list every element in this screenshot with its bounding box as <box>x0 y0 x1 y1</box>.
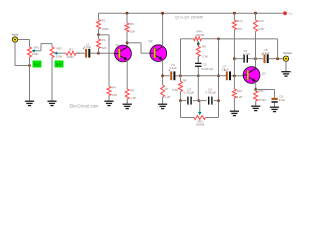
label R7 value 1.2K <box>164 95 170 99</box>
svg-text:VR2: VR2 <box>56 47 62 51</box>
wire C7 to Q3 base <box>231 75 244 77</box>
ground VR1 <box>25 98 34 106</box>
wire Q2 emitter to C2 <box>163 75 170 77</box>
resistor R13 5.6K <box>254 13 258 67</box>
potentiometer VR2 100K <box>50 47 54 101</box>
VR1 wiper arrow <box>32 49 38 52</box>
label R10 value 8.2K <box>236 95 242 99</box>
label R2 <box>102 18 106 22</box>
wire C2 to node B <box>175 75 180 77</box>
label R11 <box>258 89 264 93</box>
wire Q1 collector to Q2 base <box>127 43 150 53</box>
wire node A to R4 column <box>99 35 110 87</box>
svg-text:5.6K: 5.6K <box>258 27 264 31</box>
node bus right junction <box>217 99 220 102</box>
svg-text:82K: 82K <box>102 46 107 50</box>
label VR4 value 100KB <box>195 33 204 37</box>
svg-text:3.3µF: 3.3µF <box>169 66 177 70</box>
wire C6 left <box>234 58 243 60</box>
svg-text:3.3µF: 3.3µF <box>84 45 92 49</box>
svg-text:C5: C5 <box>203 62 207 66</box>
svg-text:4.7µF: 4.7µF <box>243 52 251 56</box>
label R7 <box>165 87 169 91</box>
node R12 C6 junction <box>233 57 236 60</box>
ground output <box>281 69 290 77</box>
node Q3 emitter junction <box>254 88 257 91</box>
watermark ElecCircuit.com <box>69 104 99 109</box>
ground VR2 <box>47 98 56 106</box>
svg-text:1.2K: 1.2K <box>164 95 170 99</box>
label R1 value <box>66 55 74 59</box>
input connector J1 <box>12 33 19 43</box>
wire C5 to base wire <box>197 67 199 76</box>
wire Q1 emitter down <box>126 60 128 89</box>
resistor R7 1.2K <box>161 85 165 101</box>
VR4 wiper arrow <box>197 41 200 47</box>
transistor Q1 2SC945 <box>115 43 132 62</box>
svg-text:Q2: Q2 <box>149 39 153 43</box>
resistor R10 8.2K <box>232 89 236 108</box>
label VR3 <box>197 119 203 123</box>
label R6 <box>130 89 134 93</box>
node Q2 emitter junction <box>161 74 164 77</box>
label R2 value 150K <box>102 27 109 31</box>
svg-text:3.3µF: 3.3µF <box>262 51 270 55</box>
wire tone mid to VR3 wiper <box>197 76 199 101</box>
potentiometer VR1 100K <box>28 47 32 66</box>
wire VR3 wiper stem <box>199 101 201 110</box>
svg-text:Q3: Q3 <box>262 72 266 76</box>
node rail R12 junction <box>233 12 236 15</box>
svg-text:R6: R6 <box>130 89 134 93</box>
capacitor C3 0.022uF <box>184 87 195 104</box>
capacitor C9 100uF <box>272 94 286 102</box>
svg-text:3.3K: 3.3K <box>202 55 208 59</box>
node Q1 base junction <box>97 52 100 55</box>
svg-text:VOL: VOL <box>34 62 40 66</box>
svg-text:3.3µF: 3.3µF <box>221 68 229 72</box>
capacitor C5 0.0047uF <box>195 56 213 70</box>
wire C6 right to collector <box>248 58 256 60</box>
label VR3 value 100KB <box>195 123 204 127</box>
svg-text:Output: Output <box>283 51 292 55</box>
resistor R2 150K <box>97 20 101 35</box>
svg-text:8.2K: 8.2K <box>236 95 242 99</box>
ground R7 <box>158 101 167 109</box>
capacitor C1 3.3uF <box>82 43 91 58</box>
svg-text:R8: R8 <box>183 78 187 82</box>
wire VR1 wiper to VR2 top <box>37 44 52 51</box>
wire base node down to R10 <box>233 76 235 89</box>
svg-text:R1: R1 <box>69 48 73 52</box>
label VR1 <box>34 46 40 50</box>
capacitor C4 0.022uF <box>206 87 217 104</box>
ground R4 <box>104 98 113 106</box>
ground C9 <box>270 104 279 112</box>
node treble-bus crossing <box>217 74 220 77</box>
svg-text:R13: R13 <box>258 19 264 23</box>
label R4 <box>112 86 116 90</box>
node rail R5 junction <box>126 12 129 15</box>
label R8 value 5.6K <box>172 88 178 92</box>
wire top supply rail <box>99 12 286 14</box>
potentiometer VR4 100KB <box>194 37 219 41</box>
wire feedback from output node <box>219 39 278 59</box>
wire rail corner to R2 <box>98 13 100 19</box>
capacitor C6 4.7uF <box>243 49 251 63</box>
power terminal 9V <box>283 11 293 15</box>
VR2 wiper arrow <box>54 52 60 55</box>
wire input shield down <box>15 42 30 65</box>
resistor R1 100 <box>66 51 80 55</box>
resistor R11 470 <box>254 90 258 105</box>
label R10 <box>237 89 243 93</box>
svg-text:R7: R7 <box>165 87 169 91</box>
wire collector node to C8 <box>256 58 264 60</box>
svg-text:R5: R5 <box>130 22 134 26</box>
node bus left junction <box>179 99 182 102</box>
label R3 <box>102 38 106 42</box>
label R1 <box>69 48 73 52</box>
node output junction <box>276 57 279 60</box>
wire VR2 wiper to R1 <box>60 52 67 54</box>
node Q3 collector C6 junction <box>254 57 257 60</box>
svg-text:100Ω: 100Ω <box>66 55 74 59</box>
capacitor C8 3.3uF <box>261 48 270 63</box>
node VR4 right junction <box>217 38 220 41</box>
wire base node to Q1 <box>99 52 116 54</box>
node VR4 wiper junction <box>197 43 199 45</box>
svg-text:Vcc: Vcc <box>288 12 293 16</box>
label R13 value 5.6K <box>258 27 264 31</box>
label R12 value 47K <box>237 27 242 31</box>
label R8 <box>183 78 187 82</box>
node B tone input junction <box>179 74 182 77</box>
wire output to ground <box>285 61 287 71</box>
label VR2 <box>56 47 62 51</box>
svg-text:R4: R4 <box>112 86 116 90</box>
wire Q2 collector to rail <box>162 13 164 46</box>
resistor R12 47K <box>232 13 236 59</box>
resistor R6 1.5K <box>125 89 129 103</box>
green box BAL <box>55 61 64 68</box>
potentiometer VR3 100KB <box>181 101 219 120</box>
resistor R9 3.3K <box>196 45 200 62</box>
wire tone to Q3 base <box>181 75 227 77</box>
wire node B up to VR4 left <box>181 39 194 76</box>
wire C8 to output node <box>269 58 284 60</box>
title text <box>175 15 203 19</box>
resistor R3 82K <box>97 35 101 53</box>
svg-text:0.0047µF: 0.0047µF <box>201 67 214 71</box>
svg-text:VR1: VR1 <box>34 46 40 50</box>
capacitor C7 3.3uF <box>221 65 231 81</box>
label R9 value 3.3K <box>202 55 208 59</box>
svg-text:47K: 47K <box>237 27 242 31</box>
label R9 <box>202 45 206 49</box>
svg-text:R10: R10 <box>237 89 243 93</box>
svg-text:ElecCircuit.com: ElecCircuit.com <box>69 104 99 109</box>
svg-text:10K: 10K <box>130 29 135 33</box>
label R5 value 10K <box>130 29 135 33</box>
svg-text:47µF: 47µF <box>279 98 286 102</box>
wire R12 node to base node <box>233 59 235 76</box>
label R12 <box>237 19 243 23</box>
wire R1 to C1 <box>76 52 85 54</box>
svg-text:R3: R3 <box>102 38 106 42</box>
svg-text:100K: 100K <box>32 52 39 56</box>
ground R10 <box>230 108 239 116</box>
svg-text:470Ω: 470Ω <box>258 98 266 102</box>
node Q3 base junction <box>233 74 236 77</box>
label R11 value 470 <box>258 98 266 102</box>
ground R6 <box>123 101 132 109</box>
node bus mid junction <box>197 99 200 102</box>
svg-text:Q1: Q1 <box>116 43 120 47</box>
ground R11 <box>251 103 260 111</box>
node C5 bottom junction <box>197 74 200 77</box>
wire Q2 emitter down <box>162 60 164 85</box>
svg-text:1.5K: 1.5K <box>130 96 136 100</box>
wire emitter to C9 <box>256 90 275 98</box>
svg-text:Input: Input <box>12 33 19 37</box>
wire bus left <box>181 100 187 102</box>
label R4 value 15K <box>112 93 117 97</box>
node Q1 collector junction <box>126 41 129 44</box>
label R5 <box>130 22 134 26</box>
node input-ground junction <box>28 64 31 67</box>
wire bus mid <box>193 100 207 102</box>
wire C9 to ground <box>274 103 276 105</box>
resistor R4 15K <box>107 86 111 101</box>
capacitor C2 3.3uF <box>168 63 177 80</box>
label R3 value 82K <box>102 46 107 50</box>
wire VR1 bottom to ground <box>29 66 31 102</box>
svg-text:100KB: 100KB <box>195 33 204 37</box>
output connector J2 <box>283 51 292 61</box>
svg-text:R12: R12 <box>237 19 243 23</box>
svg-text:R9: R9 <box>202 45 206 49</box>
wire C1 to Q1 base node <box>90 52 98 54</box>
label R13 <box>258 19 264 23</box>
label R6 value 1.5K <box>130 96 136 100</box>
svg-text:150K: 150K <box>102 27 109 31</box>
node rail R13 junction <box>254 12 257 15</box>
svg-text:Q1 to Q4: 2SC945: Q1 to Q4: 2SC945 <box>175 15 203 19</box>
svg-text:15K: 15K <box>112 93 117 97</box>
transistor Q2 2SC945 <box>149 39 167 62</box>
svg-text:100KB: 100KB <box>195 123 204 127</box>
label VR1 value 100K <box>32 52 39 56</box>
transistor Q3 2SC945 <box>243 67 266 84</box>
wire Q3 emitter down <box>255 82 257 90</box>
svg-text:5.6K: 5.6K <box>172 88 178 92</box>
svg-text:100K: 100K <box>56 54 63 58</box>
resistor R5 10K <box>125 13 129 47</box>
svg-text:0.022µF: 0.022µF <box>206 90 217 94</box>
green box VOL <box>33 61 42 68</box>
wire input to VR1 top <box>18 40 30 48</box>
wire bus right <box>214 100 219 102</box>
wire VR4 right column down <box>218 39 220 118</box>
resistor R8 5.6K <box>179 76 183 101</box>
VR3 wiper arrow <box>198 110 201 116</box>
node A divider junction <box>97 33 100 36</box>
svg-text:R2: R2 <box>102 18 106 22</box>
node rail Q2 collector junction <box>161 12 164 15</box>
label VR2 value 100K <box>56 54 63 58</box>
label VR4 <box>196 30 202 34</box>
svg-text:0.022µF: 0.022µF <box>184 90 195 94</box>
svg-text:BAL: BAL <box>56 62 62 66</box>
